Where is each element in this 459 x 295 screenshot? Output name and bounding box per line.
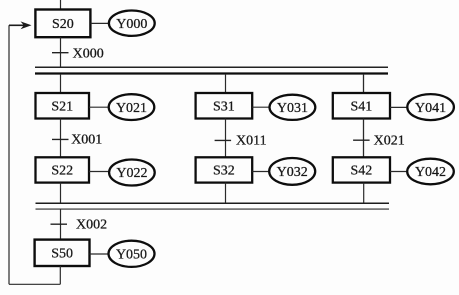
step box S31 [196,93,253,119]
transition tick X002 [51,223,68,225]
wire: S20 to Y000 [91,22,109,24]
output coil Y032 [269,158,315,185]
wire: stem S41 to S42 [363,119,365,158]
output coil Y050 [109,241,155,267]
transition tick X000 [52,52,69,54]
svg-text:X000: X000 [73,46,104,61]
wire: stem convergence to S50 [60,210,62,240]
step box S41 [333,93,390,119]
svg-text:S22: S22 [51,164,73,179]
output coil Y031 [270,95,316,120]
svg-text:X001: X001 [71,133,102,148]
step box S42 [333,157,390,182]
step box S21 [36,93,90,119]
svg-text:S21: S21 [51,100,73,115]
wire: stem below S20 [60,37,62,66]
svg-text:Y022: Y022 [116,166,147,181]
wire: stem S32 to convergence [225,183,227,203]
output coil Y042 [407,159,454,185]
parallel branch divergence double line (bottom) [35,72,388,74]
step box S50 [35,240,90,266]
svg-text:S32: S32 [213,164,235,179]
wire: stem above S20 [60,0,62,10]
output coil Y022 [109,160,155,186]
wire: left return rail [8,25,10,284]
svg-text:X011: X011 [236,134,267,149]
svg-text:X002: X002 [76,218,107,233]
step box S20 [35,10,90,38]
svg-text:Y041: Y041 [415,101,446,116]
svg-text:S50: S50 [51,247,73,262]
transition tick X001 [52,138,69,140]
parallel branch convergence double line (bottom) [36,208,390,210]
wire: S42 to Y042 [390,171,407,173]
arrowhead [21,21,32,29]
svg-text:Y031: Y031 [277,101,308,116]
wire: S32 to Y032 [252,171,269,173]
wire: bottom return link [9,283,60,285]
wire: S21 to Y021 [89,106,109,108]
wire: branch 1 stem to S21 [60,75,62,93]
svg-text:Y050: Y050 [116,248,147,263]
svg-text:Y000: Y000 [116,17,147,32]
wire: S41 to Y041 [390,106,407,108]
output coil Y021 [109,94,155,120]
svg-text:Y032: Y032 [277,165,308,180]
wire: stem below S50 to return rail [59,266,61,284]
wire: stem S31 to S32 [225,119,227,158]
wire: stem S21 to S22 [60,119,62,158]
wire: arrow shaft into S20 [9,24,24,26]
wire: S22 to Y022 [89,171,109,173]
svg-text:S42: S42 [351,164,373,179]
svg-text:X021: X021 [374,134,405,149]
wire: stem S42 to convergence [363,183,365,203]
svg-text:Y042: Y042 [415,165,446,180]
svg-text:Y021: Y021 [116,101,147,116]
step box S32 [196,157,253,182]
output coil Y000 [109,11,155,36]
svg-text:S41: S41 [351,100,373,115]
wire: stem S22 to convergence [60,183,62,203]
step box S22 [36,157,90,182]
wire: branch 3 stem to S41 [363,75,365,93]
parallel branch divergence double line (top) [35,66,388,68]
svg-text:S31: S31 [213,100,235,115]
svg-text:S20: S20 [52,17,74,32]
wire: S50 to Y050 [90,253,109,255]
transition tick X021 [353,139,370,141]
wire: branch 2 stem to S31 [225,75,227,93]
wire: S31 to Y031 [252,106,269,108]
transition tick X011 [215,139,232,141]
output coil Y041 [407,94,454,120]
parallel branch convergence double line (top) [36,202,390,204]
